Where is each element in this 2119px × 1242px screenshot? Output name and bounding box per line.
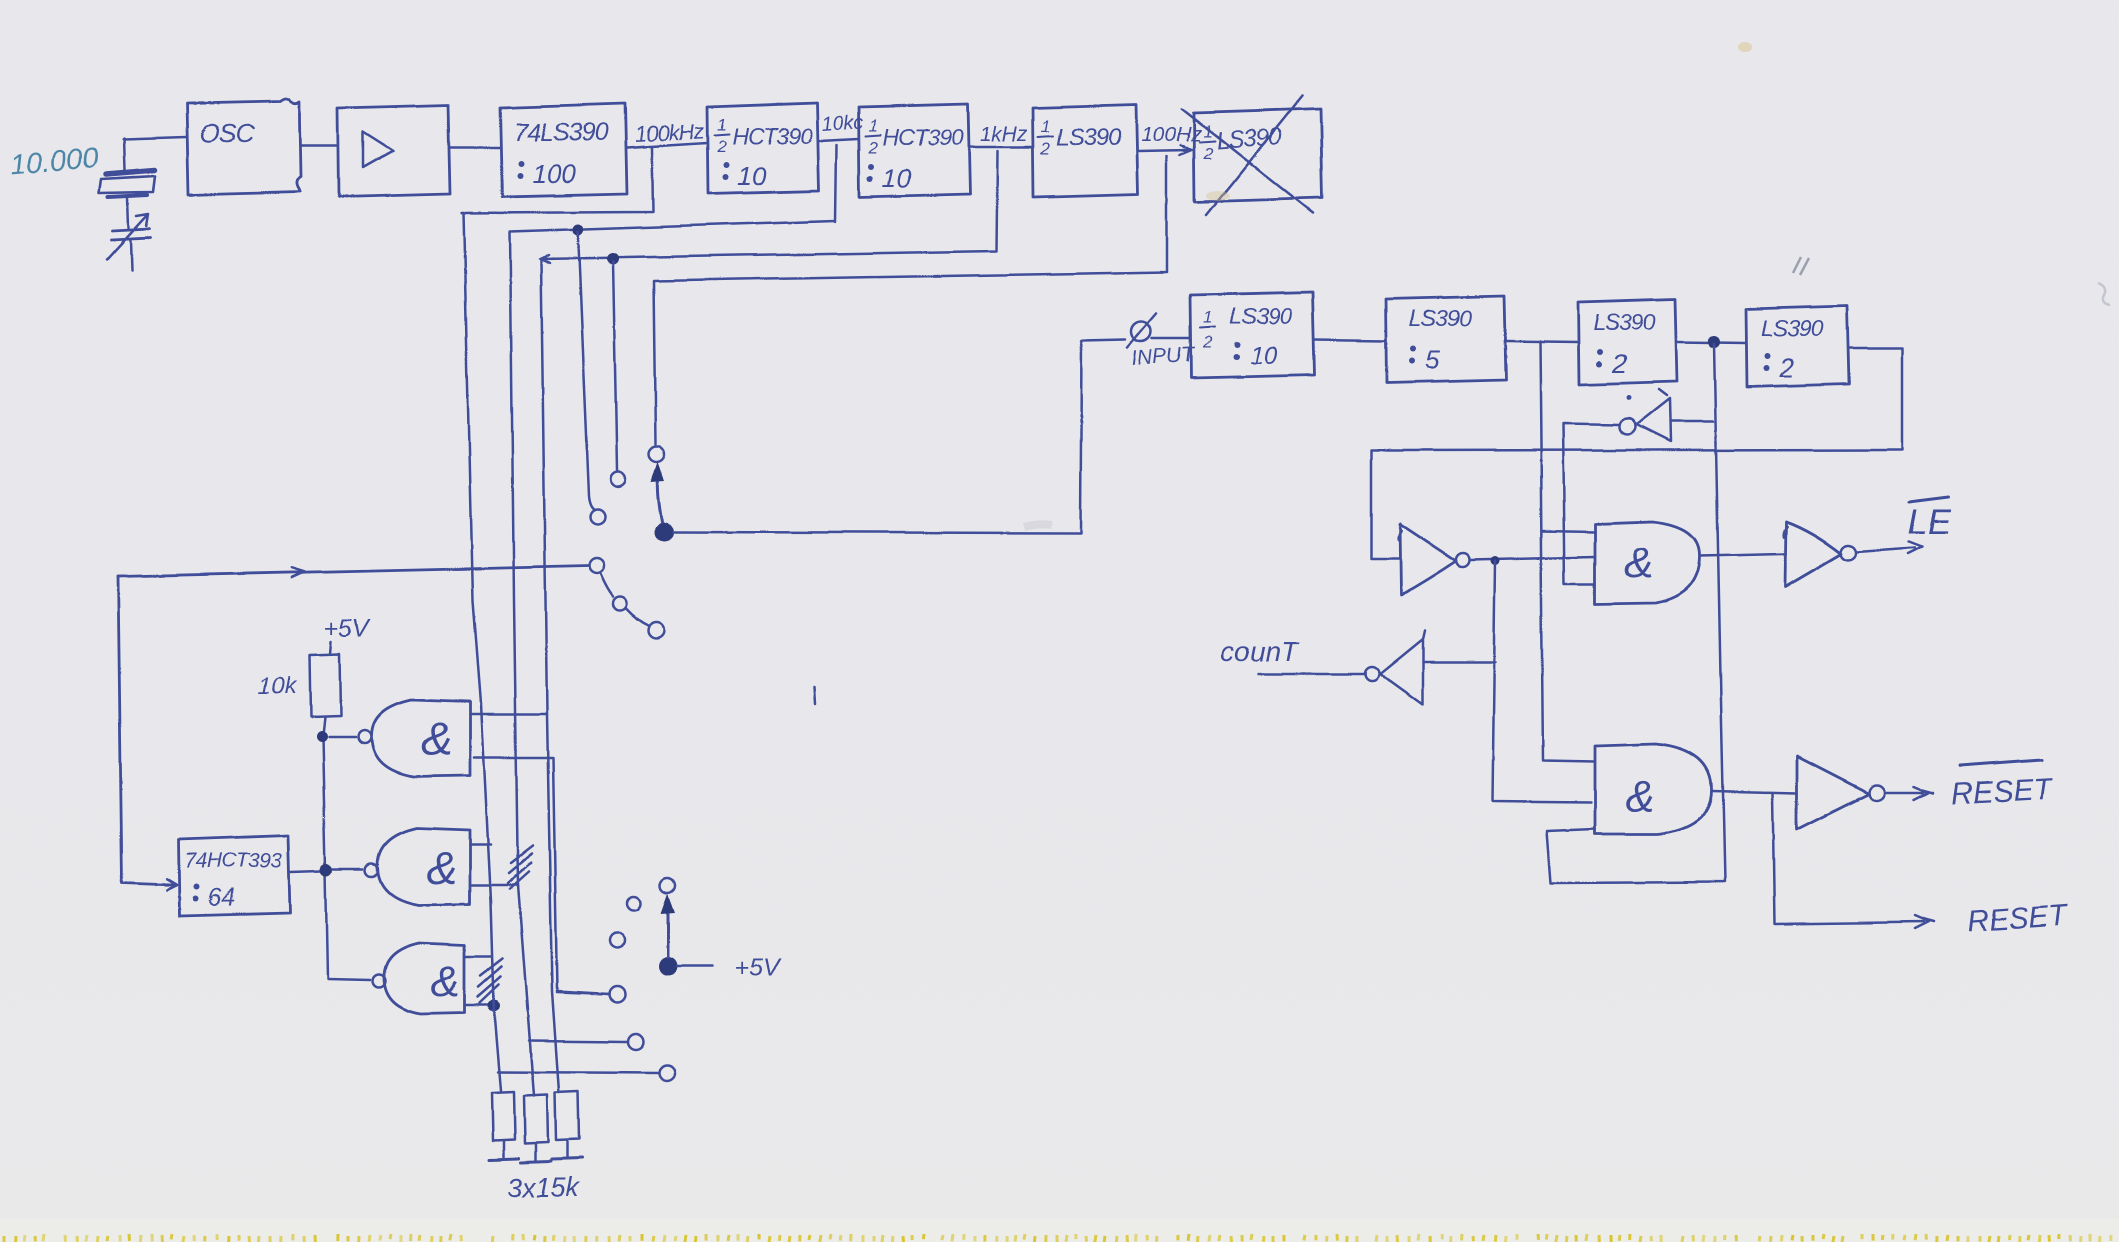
NAND gate G1 input wires [469, 713, 608, 993]
svg-text:LE: LE [1907, 502, 1950, 541]
svg-text:1: 1 [716, 114, 725, 133]
svg-text:2: 2 [715, 136, 726, 155]
AND gate G4 [1594, 521, 1699, 604]
wire G4 output to LE inverter [1699, 553, 1783, 555]
svg-text:1kHz: 1kHz [979, 122, 1027, 145]
divider U3 1/2 HCT390 :10 [706, 102, 818, 193]
oscillator OSC [186, 98, 300, 195]
count inverter U14 [1257, 629, 1495, 704]
wire feedback inverter output [1562, 423, 1619, 584]
svg-text:LS390: LS390 [1408, 304, 1471, 330]
rotary switch S1 contact 5 [613, 596, 627, 610]
rotary switch S1 contact 3 [590, 509, 605, 524]
sense vertical B continuation [517, 884, 533, 1095]
junction dot G3 input on bus A [487, 999, 499, 1011]
svg-text:+5V: +5V [734, 953, 782, 981]
junction dot NAND2 output [320, 863, 332, 875]
label 10k [257, 672, 298, 699]
trimmer capacitor C2 [106, 213, 150, 269]
rotary switch S1 contact 1 [648, 445, 664, 461]
bus wire D 100Hz tap [653, 155, 1166, 443]
wire U7 to U8 [1314, 339, 1385, 340]
svg-text:10: 10 [882, 162, 911, 192]
NAND gate G2 (open collector, pointing left) [332, 827, 469, 904]
paper stain 1 [1206, 191, 1230, 201]
NAND gate G3 input wires [464, 956, 492, 1004]
svg-text:&: & [1625, 771, 1654, 820]
paper crease mark right edge [2098, 283, 2110, 305]
wire RESET plain branch [1772, 792, 1933, 928]
bus wire B 10kc tap [509, 144, 836, 886]
divider U8 LS390 :5 [1385, 295, 1505, 382]
svg-text:+5V: +5V [324, 614, 372, 642]
wired-AND pullup net vertical [322, 737, 369, 979]
tap wire C to S2 contact 4 [556, 991, 608, 993]
label +5V switch [734, 953, 782, 981]
svg-text:1: 1 [1203, 307, 1212, 326]
svg-text:RESET: RESET [1950, 772, 2054, 810]
wire 1kHz [969, 145, 1032, 148]
svg-text:1: 1 [1040, 116, 1049, 135]
svg-text:1: 1 [868, 115, 877, 134]
divider U11 LS390 :2 [1745, 305, 1848, 386]
svg-text:10k: 10k [257, 672, 298, 699]
svg-text:5: 5 [1424, 344, 1439, 374]
label count [1219, 635, 1299, 666]
label LE with overline [1907, 496, 1950, 541]
svg-text:10: 10 [736, 160, 765, 190]
divider U2 74LS390 :100 [500, 103, 626, 196]
svg-text:HCT390: HCT390 [882, 123, 963, 149]
wire junction A to switch contact [577, 231, 594, 509]
svg-text:&: & [430, 956, 459, 1005]
svg-text:74LS390: 74LS390 [513, 118, 607, 146]
rotary switch S1 contact 2 [610, 471, 625, 486]
svg-text:2: 2 [1610, 348, 1626, 378]
rotary switch S1 contact 6 [648, 622, 664, 638]
svg-text:LS390: LS390 [1592, 308, 1655, 334]
rotary switch S2 contact 6 [658, 1064, 674, 1080]
svg-text:2: 2 [1202, 143, 1213, 162]
rotary switch S1 contact 4 [589, 558, 604, 573]
junction dot A [572, 224, 583, 235]
svg-text:64: 64 [207, 883, 235, 911]
divider U7 1/2 LS390 :10 [1190, 291, 1314, 377]
svg-text:LS390: LS390 [1055, 123, 1121, 150]
wire buffer to 74LS390 [450, 146, 500, 149]
label 1kHz [979, 122, 1027, 145]
wire S2 wiper to +5V [676, 964, 712, 967]
bottom sheet edge tint [0, 1219, 2119, 1242]
tap wire A to S2 contact 6 [497, 1071, 657, 1072]
rotary switch S2 contact 4 [608, 985, 624, 1001]
wire U8 to U9 [1505, 340, 1577, 341]
svg-text:&: & [421, 712, 452, 764]
buffer U1 [337, 104, 450, 196]
junction dot NAND1 output [316, 731, 327, 742]
vertical net from U8 output [1539, 340, 1594, 761]
svg-text:2: 2 [1202, 332, 1213, 351]
svg-text:HCT390: HCT390 [731, 122, 812, 148]
vertical net from U9 output junction [1546, 343, 1724, 882]
svg-text:3x15k: 3x15k [506, 1172, 580, 1202]
divider U4 1/2 HCT390 :10 [858, 103, 969, 196]
resistor R2 15k [488, 1091, 518, 1159]
svg-text:LS390: LS390 [1229, 302, 1292, 328]
label 3x15k [506, 1172, 580, 1202]
rotary switch S2 wiper [658, 893, 677, 975]
wire U8 net to AND input jog [1541, 530, 1594, 531]
divider U6 1/2 LS390 (crossed out) [1181, 95, 1322, 214]
crystal X1 [99, 169, 155, 227]
rotary switch S1 coupling curve [600, 573, 648, 625]
divider U5 1/2 LS390 [1032, 104, 1137, 196]
NAND gate G2 input wires [469, 843, 516, 884]
bus wire C 1kHz tap [539, 150, 997, 262]
junction dot B [606, 252, 618, 264]
label 100Hz [1140, 122, 1201, 145]
sense vertical C from bus C [540, 259, 558, 1092]
paper stain 2 [1738, 42, 1752, 52]
stray ink dash [814, 686, 815, 703]
NAND gate G1 (open collector, pointing left) [328, 699, 469, 776]
feedback inverter U12 [1619, 389, 1712, 441]
svg-text:2: 2 [1778, 352, 1794, 382]
wire U9 to U11 with junction [1676, 335, 1745, 347]
scribble mark on vertical B [507, 845, 532, 888]
rotary switch S2 contact 5 [627, 1033, 643, 1049]
svg-text:counT: counT [1219, 635, 1299, 666]
rotary switch S2 contact 3 [609, 933, 624, 948]
tap wire B to S2 contact 5 [528, 1040, 627, 1041]
resistor R3 15k [520, 1094, 550, 1162]
svg-text:INPUT: INPUT [1131, 342, 1198, 369]
label 10kc [820, 110, 864, 135]
label RESET with overline [1950, 759, 2054, 810]
wire S1 wiper to INPUT divider [672, 339, 1125, 532]
wire 74HCT393 output to NAND bus [290, 870, 321, 871]
phase symbol on input wire [1127, 313, 1190, 347]
label 100kHz [633, 117, 704, 146]
svg-text:10: 10 [1249, 341, 1277, 369]
RESET inverter U16 [1796, 756, 1932, 829]
NAND gate G3 (open collector, pointing left) [372, 942, 465, 1013]
label INPUT [1131, 342, 1198, 369]
LE inverter U15 [1783, 521, 1921, 586]
smudge mark [1024, 524, 1052, 527]
pencil mark top right [1793, 257, 1809, 275]
rotary switch S2 contact 1 [660, 878, 675, 893]
left feedback line to S1 contact 4 [117, 565, 588, 577]
vertical net from buffer output [1492, 560, 1590, 801]
wire G5 output to RESET inverter [1711, 790, 1796, 792]
label RESET plain [1965, 898, 2070, 938]
svg-text:LS390: LS390 [1215, 122, 1283, 154]
svg-text:OSC: OSC [199, 117, 254, 147]
junction buffer output [1491, 556, 1500, 565]
wire 100Hz [1137, 144, 1191, 154]
scribble mark on vertical A [477, 958, 502, 1002]
yellow perforation dashes along bottom edge [4, 1234, 2111, 1242]
gating buffer U13 [1398, 523, 1469, 594]
svg-text:LS390: LS390 [1760, 314, 1823, 340]
svg-text:74HCT393: 74HCT393 [184, 849, 282, 872]
label 10.000 (crystal frequency) [8, 141, 99, 181]
svg-text:&: & [1623, 538, 1652, 587]
wire junction B to switch contact [612, 261, 616, 469]
label +5V pullup [324, 614, 372, 653]
resistor R4 15k [551, 1091, 581, 1159]
wire OSC to buffer [300, 144, 336, 147]
divider U9 LS390 :2 [1577, 298, 1676, 384]
svg-text:2: 2 [1039, 138, 1050, 157]
rotary switch S2 contact 2 [626, 896, 640, 910]
wire buffer output to AND gate [1469, 556, 1594, 559]
left feedback vertical to 74HCT393 [117, 576, 176, 889]
svg-text:&: & [426, 841, 457, 893]
rotary switch S1 wiper [650, 461, 673, 541]
wire U11 output loop to gating buffer [1370, 347, 1901, 558]
resistor R1 10k [309, 653, 340, 735]
sense vertical A continuation [480, 703, 500, 1090]
bus wire A 100kHz tap [461, 147, 652, 703]
svg-text:2: 2 [867, 137, 878, 156]
wire crystal to OSC [122, 136, 186, 169]
divider U10 74HCT393 :64 [178, 835, 290, 915]
wire 10kc [818, 138, 858, 140]
svg-text:100: 100 [532, 158, 576, 188]
wire 100kHz [626, 142, 706, 147]
AND gate G5 [1594, 743, 1711, 833]
